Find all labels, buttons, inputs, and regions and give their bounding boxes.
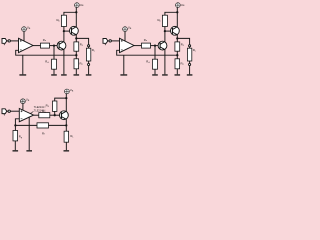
svg-text:TLE2142 I: TLE2142 I [34, 109, 46, 112]
